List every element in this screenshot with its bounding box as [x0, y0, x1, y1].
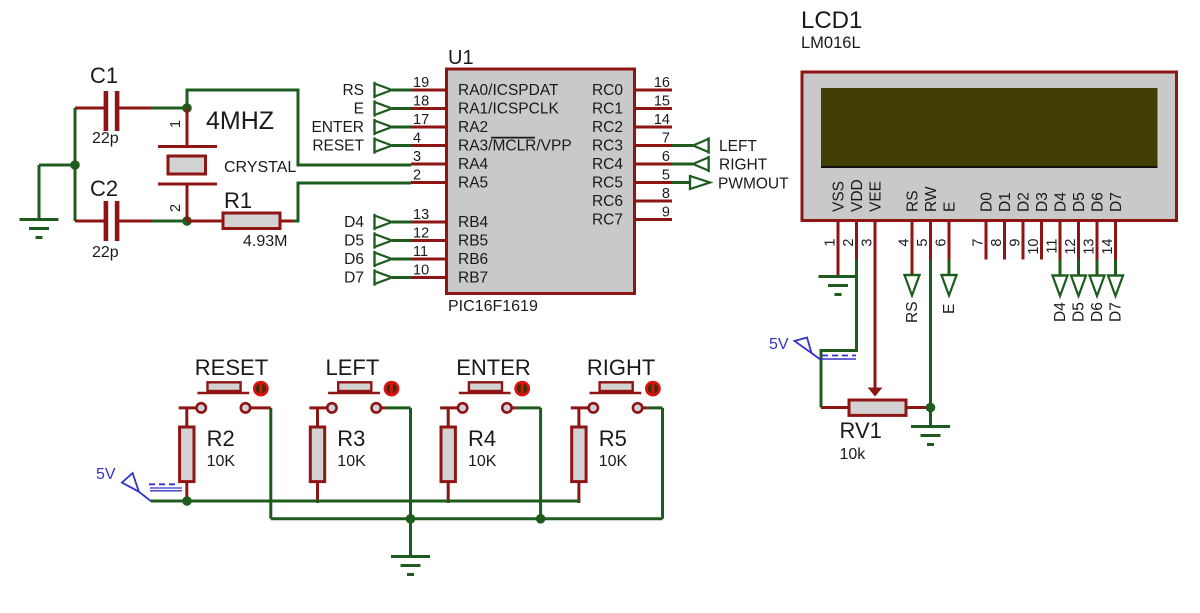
- svg-text:14: 14: [654, 112, 670, 128]
- svg-text:VEE: VEE: [868, 181, 885, 212]
- svg-text:10: 10: [1026, 239, 1042, 255]
- svg-text:D7: D7: [1108, 302, 1125, 322]
- svg-text:VSS: VSS: [831, 181, 848, 212]
- svg-text:4: 4: [897, 239, 913, 247]
- svg-text:3: 3: [413, 149, 421, 165]
- svg-text:RC5: RC5: [592, 175, 623, 192]
- svg-text:R2: R2: [207, 426, 235, 451]
- svg-text:RB5: RB5: [458, 233, 488, 250]
- svg-text:5V: 5V: [769, 336, 789, 353]
- svg-text:12: 12: [1063, 239, 1079, 255]
- svg-text:PWMOUT: PWMOUT: [718, 176, 789, 193]
- svg-text:RC6: RC6: [592, 193, 623, 210]
- svg-text:9: 9: [1008, 239, 1024, 247]
- svg-text:RW: RW: [923, 186, 940, 212]
- svg-text:D4: D4: [1053, 192, 1070, 212]
- svg-text:2: 2: [841, 239, 857, 247]
- svg-text:10K: 10K: [468, 453, 497, 470]
- svg-text:4MHZ: 4MHZ: [206, 107, 274, 135]
- svg-text:6: 6: [934, 239, 950, 247]
- svg-text:14: 14: [1100, 239, 1116, 255]
- svg-text:D5: D5: [1071, 302, 1088, 322]
- svg-text:10K: 10K: [207, 453, 236, 470]
- svg-text:RIGHT: RIGHT: [587, 355, 655, 380]
- svg-text:D1: D1: [997, 192, 1014, 212]
- svg-text:VDD: VDD: [849, 179, 866, 212]
- svg-text:13: 13: [413, 207, 429, 223]
- svg-text:D6: D6: [1089, 302, 1106, 322]
- svg-text:RA5: RA5: [458, 175, 488, 192]
- svg-text:RB4: RB4: [458, 214, 489, 231]
- svg-text:E: E: [354, 101, 364, 118]
- svg-text:RS: RS: [342, 82, 364, 99]
- svg-text:RESET: RESET: [312, 138, 364, 155]
- svg-text:CRYSTAL: CRYSTAL: [224, 159, 296, 176]
- svg-text:LEFT: LEFT: [719, 138, 757, 155]
- svg-text:R5: R5: [599, 426, 627, 451]
- svg-text:5: 5: [915, 239, 931, 247]
- svg-text:D5: D5: [344, 233, 364, 250]
- svg-text:RA1/ICSPCLK: RA1/ICSPCLK: [458, 101, 559, 118]
- svg-text:12: 12: [413, 226, 429, 242]
- svg-text:10: 10: [413, 263, 429, 279]
- svg-text:D5: D5: [1071, 192, 1088, 212]
- svg-text:RV1: RV1: [840, 418, 882, 443]
- svg-text:D3: D3: [1034, 192, 1051, 212]
- svg-text:RB6: RB6: [458, 251, 488, 268]
- svg-text:22p: 22p: [92, 244, 119, 261]
- svg-text:ENTER: ENTER: [456, 355, 531, 380]
- svg-text:R1: R1: [224, 188, 252, 213]
- svg-text:RESET: RESET: [195, 355, 268, 380]
- svg-text:RC4: RC4: [592, 156, 623, 173]
- svg-text:15: 15: [654, 94, 670, 110]
- svg-text:RIGHT: RIGHT: [719, 157, 768, 174]
- svg-text:10k: 10k: [840, 446, 867, 463]
- svg-text:PIC16F1619: PIC16F1619: [448, 298, 538, 315]
- svg-text:4.93M: 4.93M: [243, 233, 287, 250]
- svg-text:D6: D6: [344, 251, 364, 268]
- svg-text:RC7: RC7: [592, 212, 623, 229]
- svg-text:11: 11: [413, 244, 428, 260]
- svg-text:ENTER: ENTER: [311, 119, 364, 136]
- svg-text:16: 16: [654, 75, 670, 91]
- svg-text:11: 11: [1045, 239, 1061, 254]
- svg-text:RB7: RB7: [458, 270, 488, 287]
- svg-text:13: 13: [1082, 239, 1098, 255]
- svg-text:C1: C1: [90, 63, 118, 88]
- svg-text:1: 1: [168, 120, 184, 128]
- svg-text:RC0: RC0: [592, 82, 623, 99]
- svg-text:6: 6: [662, 149, 670, 165]
- svg-text:5: 5: [662, 168, 670, 184]
- svg-text:RA0/ICSPDAT: RA0/ICSPDAT: [458, 82, 559, 99]
- svg-text:4: 4: [413, 131, 421, 147]
- svg-text:E: E: [941, 304, 958, 314]
- svg-text:LEFT: LEFT: [326, 355, 380, 380]
- svg-text:C2: C2: [90, 176, 118, 201]
- svg-text:LCD1: LCD1: [801, 7, 862, 34]
- svg-text:18: 18: [413, 94, 429, 110]
- svg-text:RA3/MCLR/VPP: RA3/MCLR/VPP: [458, 138, 572, 155]
- svg-text:1: 1: [823, 239, 839, 247]
- svg-text:7: 7: [662, 131, 670, 147]
- svg-text:22p: 22p: [92, 130, 119, 147]
- svg-text:9: 9: [662, 205, 670, 221]
- svg-text:2: 2: [413, 168, 421, 184]
- svg-text:D4: D4: [1052, 302, 1069, 322]
- svg-text:10K: 10K: [599, 453, 628, 470]
- svg-text:R4: R4: [468, 426, 496, 451]
- svg-text:D0: D0: [979, 192, 996, 212]
- svg-text:RA2: RA2: [458, 119, 488, 136]
- svg-text:D4: D4: [344, 214, 364, 231]
- svg-text:RS: RS: [904, 301, 921, 323]
- svg-text:3: 3: [860, 239, 876, 247]
- svg-text:5V: 5V: [96, 466, 116, 483]
- svg-text:RS: RS: [905, 190, 922, 212]
- svg-text:17: 17: [413, 112, 429, 128]
- svg-text:R3: R3: [337, 426, 365, 451]
- svg-text:E: E: [942, 202, 959, 212]
- svg-text:8: 8: [662, 186, 670, 202]
- svg-text:D6: D6: [1090, 192, 1107, 212]
- svg-text:RC3: RC3: [592, 138, 623, 155]
- svg-text:RC1: RC1: [592, 101, 623, 118]
- svg-text:19: 19: [413, 75, 429, 91]
- svg-text:D2: D2: [1016, 192, 1033, 212]
- svg-text:10K: 10K: [337, 453, 366, 470]
- svg-text:2: 2: [168, 204, 184, 212]
- svg-text:RA4: RA4: [458, 156, 489, 173]
- svg-text:LM016L: LM016L: [801, 34, 861, 52]
- svg-text:7: 7: [971, 239, 987, 247]
- svg-text:D7: D7: [1108, 192, 1125, 212]
- svg-text:U1: U1: [448, 47, 474, 69]
- svg-text:D7: D7: [344, 270, 364, 287]
- svg-text:RC2: RC2: [592, 119, 623, 136]
- svg-text:8: 8: [989, 239, 1005, 247]
